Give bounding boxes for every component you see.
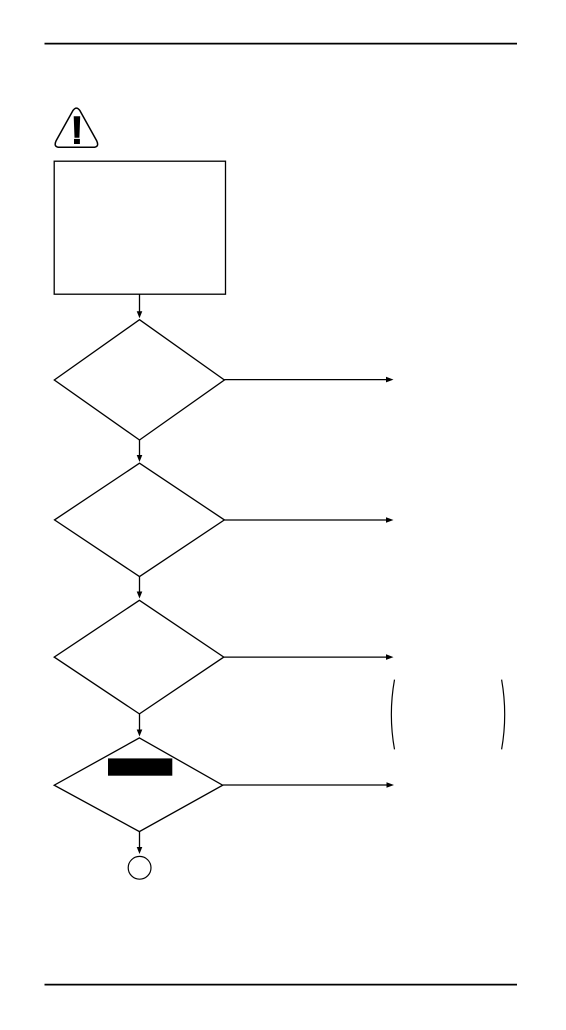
decision diamond D3 bbox=[54, 600, 224, 714]
right parenthesis bbox=[502, 680, 505, 750]
arrow: D2 to right bbox=[224, 517, 393, 523]
left parenthesis bbox=[391, 680, 394, 750]
warning triangle icon bbox=[55, 108, 97, 147]
wire: D3 to diamond D4 bbox=[137, 714, 143, 737]
decision diamond D4 bbox=[54, 738, 223, 832]
arrow: D4 to right bbox=[223, 782, 394, 788]
header rule bbox=[45, 43, 518, 45]
arrow: D3 to right bbox=[224, 654, 394, 660]
wire: D4 to terminator circle bbox=[137, 832, 143, 854]
wire: D1 to diamond D2 bbox=[137, 440, 143, 462]
redaction bar inside D4 bbox=[108, 758, 172, 775]
wire: D2 to diamond D3 bbox=[137, 577, 143, 599]
terminator circle bbox=[128, 856, 151, 879]
process box bbox=[54, 161, 225, 294]
decision diamond D2 bbox=[55, 463, 225, 576]
decision diamond D1 bbox=[54, 320, 224, 440]
footer rule bbox=[45, 984, 518, 986]
arrow: D1 to right bbox=[224, 377, 393, 383]
wire: box to diamond D1 bbox=[137, 294, 143, 318]
